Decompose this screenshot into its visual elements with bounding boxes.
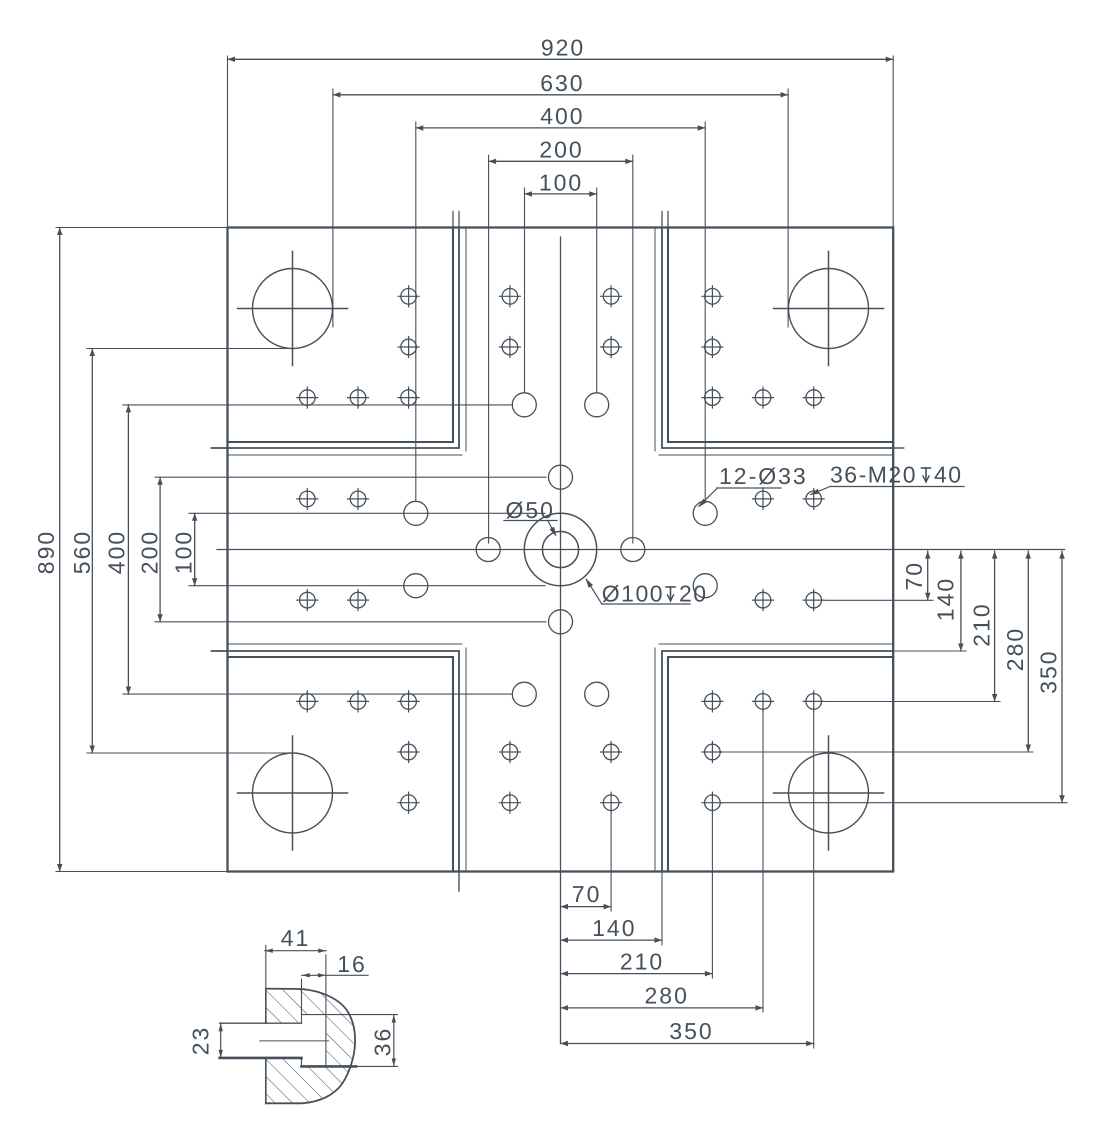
dimension 400 vertical hole spacing bbox=[104, 405, 511, 694]
svg-text:350: 350 bbox=[1036, 649, 1062, 693]
svg-text:100: 100 bbox=[170, 530, 196, 574]
svg-text:920: 920 bbox=[541, 34, 585, 60]
D33 hole (100,0) bbox=[621, 538, 645, 562]
D33 hole (-100,0) bbox=[476, 538, 500, 562]
M20 tapped hole (280,-70) bbox=[753, 488, 774, 509]
dimension 70 right bbox=[824, 551, 933, 600]
dimension 100 vertical hole spacing bbox=[170, 513, 545, 585]
svg-text:560: 560 bbox=[69, 530, 95, 574]
dimension 210 bottom bbox=[561, 813, 713, 978]
detail T-slot profile bbox=[220, 1015, 356, 1067]
svg-text:200: 200 bbox=[136, 530, 162, 574]
M20 tapped hole (350,-210) bbox=[803, 387, 824, 408]
M20 tapped hole (-280,70) bbox=[348, 590, 369, 611]
M20 tapped hole (280,70) bbox=[753, 590, 774, 611]
M20 tapped hole (-70,-280) bbox=[499, 337, 520, 358]
svg-text:200: 200 bbox=[539, 136, 583, 162]
M20 tapped hole (350,210) bbox=[803, 691, 824, 712]
pocket edge overshoot stub below plate bbox=[458, 872, 460, 892]
M20 tapped hole (-70,-350) bbox=[499, 286, 520, 307]
svg-text:140: 140 bbox=[592, 915, 636, 941]
svg-text:280: 280 bbox=[1002, 627, 1028, 671]
label D50 with leader bbox=[504, 497, 557, 537]
dimension 280 right bbox=[723, 551, 1033, 752]
label 36-M20 depth 40 with leader bbox=[810, 462, 965, 496]
dimension 630 tie bar clearance bbox=[333, 70, 788, 327]
D33 hole (0,100) bbox=[549, 610, 573, 634]
dimension 140 bottom bbox=[561, 872, 663, 946]
pocket edge overshoot stub right of plate bbox=[893, 447, 904, 449]
D33 hole (50,200) bbox=[585, 682, 609, 706]
label D100 depth 20 with leader bbox=[586, 578, 708, 607]
dimension 100 hole spacing bbox=[525, 169, 597, 392]
detail dimension 36 bbox=[326, 1015, 398, 1067]
tie bar hole bottom-right bbox=[774, 736, 884, 850]
M20 tapped hole (210,350) bbox=[702, 792, 723, 813]
svg-text:41: 41 bbox=[281, 925, 311, 951]
dimension 200 vertical hole spacing bbox=[136, 477, 546, 622]
pocket edge lines top-right island bbox=[655, 228, 893, 456]
M20 tapped hole (-210,-350) bbox=[398, 286, 419, 307]
M20 tapped hole (210,-210) bbox=[702, 387, 723, 408]
svg-text:23: 23 bbox=[188, 1026, 214, 1056]
M20 tapped hole (-70,280) bbox=[499, 742, 520, 763]
tie bar hole top-right bbox=[774, 252, 884, 366]
svg-text:Ø100: Ø100 bbox=[602, 581, 664, 607]
dimension 560 tie bar clearance bbox=[69, 349, 287, 754]
M20 tapped hole (-350,210) bbox=[297, 691, 318, 712]
detail dimension 23 bbox=[188, 1023, 223, 1058]
M20 tapped hole (70,-350) bbox=[601, 286, 622, 307]
M20 tapped hole (-280,210) bbox=[348, 691, 369, 712]
central recess circle D100 bbox=[524, 513, 596, 585]
M20 tapped hole (280,210) bbox=[753, 691, 774, 712]
svg-text:890: 890 bbox=[33, 530, 59, 574]
M20 tapped hole (210,280) bbox=[702, 742, 723, 763]
detail dimension 41 bbox=[265, 925, 326, 989]
D33 hole (-50,200) bbox=[512, 682, 536, 706]
pocket edge overshoot stubs above plate top bbox=[453, 212, 668, 228]
horizontal centerline bbox=[217, 549, 1065, 551]
svg-text:70: 70 bbox=[572, 881, 602, 907]
M20 tapped hole (-210,-210) bbox=[398, 387, 419, 408]
M20 tapped hole (-350,-70) bbox=[297, 488, 318, 509]
M20 tapped hole (-350,-210) bbox=[297, 387, 318, 408]
detail dimension 16 bbox=[302, 951, 369, 1066]
svg-text:280: 280 bbox=[645, 982, 689, 1008]
svg-text:630: 630 bbox=[540, 70, 584, 96]
M20 tapped hole (-70,350) bbox=[499, 792, 520, 813]
M20 tapped hole (-210,350) bbox=[398, 792, 419, 813]
svg-text:16: 16 bbox=[337, 951, 367, 977]
svg-text:36: 36 bbox=[370, 1027, 396, 1057]
svg-text:12-Ø33: 12-Ø33 bbox=[719, 463, 808, 489]
dimension 920 plate width bbox=[228, 34, 894, 227]
svg-text:Ø50: Ø50 bbox=[505, 497, 554, 523]
M20 tapped hole (210,-350) bbox=[702, 286, 723, 307]
M20 tapped hole (-210,210) bbox=[398, 691, 419, 712]
M20 tapped hole (70,350) bbox=[601, 792, 622, 813]
tie bar hole top-left bbox=[238, 252, 348, 366]
D33 hole (0,-100) bbox=[549, 465, 573, 489]
pocket edge lines bottom-left island bbox=[228, 644, 467, 872]
M20 tapped hole (210,210) bbox=[702, 691, 723, 712]
tie bar hole bottom-left bbox=[238, 736, 348, 850]
D33 hole (200,-50) bbox=[693, 501, 717, 525]
D33 hole (200,50) bbox=[693, 574, 717, 598]
M20 tapped hole (350,70) bbox=[803, 590, 824, 611]
svg-text:400: 400 bbox=[540, 103, 584, 129]
central bore circle D50 bbox=[542, 531, 578, 567]
pocket edge lines top-left island bbox=[228, 228, 467, 456]
M20 tapped hole (70,-280) bbox=[601, 337, 622, 358]
svg-text:36-M20: 36-M20 bbox=[830, 462, 917, 488]
plate outline 920x890 bbox=[228, 228, 894, 872]
dimension 350 bottom bbox=[561, 712, 814, 1048]
dimension 890 plate height bbox=[33, 228, 228, 872]
M20 tapped hole (-350,70) bbox=[297, 590, 318, 611]
M20 tapped hole (210,-280) bbox=[702, 337, 723, 358]
M20 tapped hole (350,-70) bbox=[803, 488, 824, 509]
dimension 140 right bbox=[893, 551, 966, 651]
dimension 210 right bbox=[824, 551, 1000, 701]
M20 tapped hole (-280,-210) bbox=[348, 387, 369, 408]
dimension 70 bottom bbox=[561, 813, 612, 911]
D33 hole (-200,-50) bbox=[404, 501, 428, 525]
svg-text:40: 40 bbox=[934, 462, 963, 488]
pocket edge lines bottom-right island bbox=[655, 644, 893, 872]
D33 hole (-50,-200) bbox=[512, 393, 536, 417]
M20 tapped hole (-210,280) bbox=[398, 742, 419, 763]
dimension 200 hole spacing bbox=[489, 136, 633, 543]
M20 tapped hole (-210,-280) bbox=[398, 337, 419, 358]
detail slot centerline bbox=[260, 1040, 329, 1042]
dimension 350 right bbox=[723, 551, 1067, 803]
svg-text:210: 210 bbox=[969, 602, 995, 646]
dimension 400 hole spacing bbox=[416, 103, 705, 501]
svg-text:350: 350 bbox=[669, 1018, 713, 1044]
D33 hole (-200,50) bbox=[404, 574, 428, 598]
svg-text:100: 100 bbox=[539, 169, 583, 195]
M20 tapped hole (-280,-70) bbox=[348, 488, 369, 509]
vertical centerline bbox=[560, 237, 562, 1044]
svg-text:210: 210 bbox=[620, 948, 664, 974]
svg-text:400: 400 bbox=[104, 530, 130, 574]
svg-text:70: 70 bbox=[901, 561, 927, 591]
pocket edge overshoot stubs left of plate bbox=[212, 448, 228, 651]
detail section hatched body bbox=[266, 989, 355, 1104]
svg-text:20: 20 bbox=[679, 581, 708, 607]
M20 tapped hole (280,-210) bbox=[753, 387, 774, 408]
D33 hole (50,-200) bbox=[585, 393, 609, 417]
label 12-D33 with leader bbox=[698, 463, 808, 508]
detail section outline bbox=[266, 989, 355, 1104]
svg-text:140: 140 bbox=[932, 577, 958, 621]
dimension 280 bottom bbox=[561, 712, 764, 1012]
M20 tapped hole (70,280) bbox=[601, 742, 622, 763]
